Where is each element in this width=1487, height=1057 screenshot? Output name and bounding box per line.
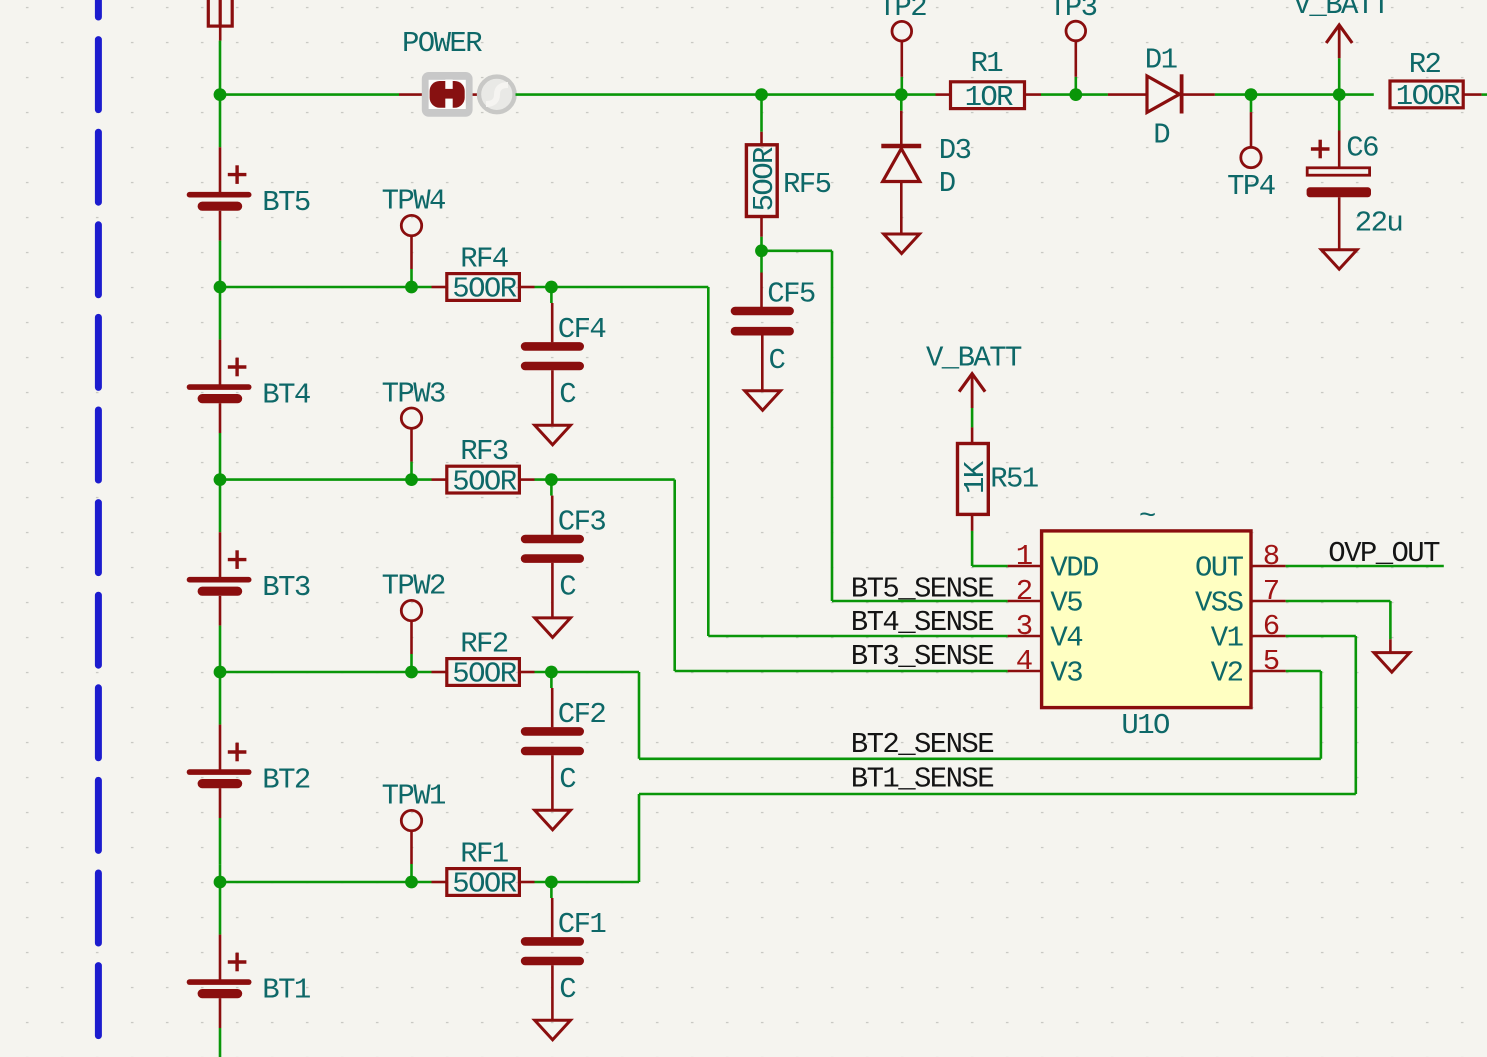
node TPW1 junction	[405, 876, 418, 889]
power symbol V_BATT top	[1326, 25, 1352, 95]
svg-text:VDD: VDD	[1050, 552, 1098, 585]
wire RF4 to CF4 node	[535, 286, 552, 289]
svg-text:C: C	[559, 763, 576, 796]
svg-text:VSS: VSS	[1195, 587, 1243, 620]
test point TPW4	[410, 236, 413, 287]
wire node A to POWER connector	[220, 93, 399, 96]
svg-text:D1: D1	[1145, 44, 1177, 77]
node D3 tap junction	[895, 88, 908, 101]
svg-text:5OOR: 5OOR	[452, 465, 516, 498]
svg-text:5OOR: 5OOR	[748, 147, 781, 211]
svg-text:OUT: OUT	[1195, 552, 1244, 585]
svg-text:U1O: U1O	[1121, 709, 1169, 742]
wire OVP_OUT net	[1286, 565, 1444, 568]
wire V_BATT to R51	[971, 408, 974, 427]
node TPW2 junction	[405, 666, 418, 679]
svg-text:BT4: BT4	[262, 378, 310, 411]
svg-text:TP4: TP4	[1227, 170, 1275, 203]
node BT junction row RF2	[214, 666, 227, 679]
wire D3 node to R1	[901, 93, 935, 96]
ground below CF2	[535, 810, 571, 830]
ground below CF4	[535, 425, 571, 445]
capacitor CF4	[550, 287, 553, 342]
svg-text:BT3: BT3	[262, 571, 310, 604]
node CF3 junction	[545, 473, 558, 486]
svg-text:TPW3: TPW3	[382, 377, 445, 410]
svg-text:CF4: CF4	[558, 313, 606, 346]
svg-text:CF3: CF3	[558, 506, 606, 539]
svg-text:D: D	[1153, 119, 1169, 152]
ground below CF5	[745, 391, 781, 411]
wire blue dashed separator line	[95, 0, 102, 1057]
wire VSS to ground	[1286, 600, 1391, 603]
node BT junction row RF1	[214, 876, 227, 889]
pin 7 VSS	[1251, 600, 1286, 603]
svg-text:2: 2	[1016, 575, 1032, 608]
svg-text:3: 3	[1016, 610, 1032, 643]
node A junction at top of battery stack	[214, 88, 227, 101]
svg-text:BT5: BT5	[262, 186, 310, 219]
wire BT5_SENSE horizontal into pin V5	[832, 600, 1008, 603]
wire TPW1 node to RF1	[412, 881, 432, 884]
svg-text:TPW2: TPW2	[382, 570, 445, 603]
svg-text:R51: R51	[990, 462, 1038, 495]
node TPW4 junction	[405, 281, 418, 294]
svg-text:~: ~	[1139, 500, 1155, 533]
capacitor C6 plus sign	[1311, 147, 1330, 150]
node TPW3 junction	[405, 473, 418, 486]
svg-text:5OOR: 5OOR	[452, 273, 516, 306]
svg-text:RF5: RF5	[783, 168, 831, 201]
wire R2 to sheet edge	[1482, 93, 1487, 96]
svg-text:BT2: BT2	[262, 763, 310, 796]
diode D1	[1108, 74, 1215, 113]
test point TPW1	[410, 831, 413, 882]
wire RF5 to CF5 node	[760, 217, 763, 237]
svg-text:C: C	[559, 378, 576, 411]
svg-text:BT5_SENSE: BT5_SENSE	[851, 573, 993, 606]
wire BT2 to RF1 row extra segment	[219, 865, 222, 882]
resistor RF3	[432, 478, 447, 481]
svg-text:R1: R1	[970, 47, 1002, 80]
wire battery stack to TPW1 node	[220, 881, 412, 884]
wire TP3 node to D1	[1076, 93, 1108, 96]
svg-text:C: C	[559, 973, 576, 1006]
wire RF1 to CF1 node	[535, 881, 552, 884]
ground at VSS	[1374, 653, 1410, 673]
capacitor CF3	[550, 480, 553, 535]
svg-text:D3: D3	[939, 134, 971, 167]
node CF1 junction	[545, 876, 558, 889]
ground below CF3	[535, 618, 571, 638]
svg-text:CF5: CF5	[767, 278, 815, 311]
wire RF3 to CF3 node	[535, 478, 552, 481]
resistor R2	[1390, 81, 1463, 108]
power symbol V_BATT at R51	[959, 374, 985, 408]
svg-text:7: 7	[1263, 575, 1279, 608]
wire battery stack to TPW3 node	[220, 478, 412, 481]
wire BT2_SENSE net	[551, 671, 639, 674]
test point TP3	[1075, 41, 1078, 95]
battery BT1 plus sign	[228, 960, 247, 963]
wire CF5 node to BT5_SENSE vertical	[762, 250, 833, 253]
resistor R1	[936, 93, 951, 96]
svg-text:1OR: 1OR	[965, 81, 1014, 114]
svg-text:6: 6	[1263, 610, 1279, 643]
svg-text:4: 4	[1016, 645, 1032, 678]
test point TP4	[1250, 95, 1253, 147]
svg-text:V5: V5	[1050, 587, 1082, 620]
svg-text:RF3: RF3	[460, 435, 508, 468]
node V_BATT junction	[1333, 88, 1346, 101]
svg-text:22u: 22u	[1355, 207, 1402, 240]
wire RF2 to CF2 node	[535, 671, 552, 674]
pin 8 OUT	[1251, 565, 1286, 568]
battery BT2	[190, 672, 249, 818]
node CF4 junction	[545, 281, 558, 294]
ground below D3	[884, 234, 920, 254]
wire BT2 bottom lead	[219, 818, 222, 865]
battery BT2 plus sign	[228, 750, 247, 753]
svg-text:C: C	[559, 571, 576, 604]
svg-text:V4: V4	[1050, 622, 1082, 655]
svg-text:BT2_SENSE: BT2_SENSE	[851, 728, 993, 761]
svg-text:RF1: RF1	[460, 838, 508, 871]
wire fuse to node A	[219, 41, 222, 95]
svg-text:C: C	[769, 344, 786, 377]
svg-text:8: 8	[1263, 540, 1279, 573]
svg-text:1K: 1K	[959, 460, 992, 494]
wire BT1 bottom lead	[219, 1028, 222, 1057]
wire RF5 node to D3 node	[762, 93, 902, 96]
wire TPW4 node to RF4	[412, 286, 432, 289]
svg-text:OVP_OUT: OVP_OUT	[1328, 537, 1440, 570]
connector J1 power-plug icon	[422, 72, 515, 117]
ground below CF1	[535, 1020, 571, 1040]
resistor R51	[971, 427, 974, 443]
svg-text:CF1: CF1	[558, 908, 606, 941]
svg-text:CF2: CF2	[558, 698, 606, 731]
svg-text:TP3: TP3	[1049, 0, 1097, 24]
wire POWER connector to RF5 node	[516, 93, 762, 96]
svg-text:BT4_SENSE: BT4_SENSE	[851, 606, 993, 639]
svg-text:RF2: RF2	[460, 628, 508, 661]
battery BT4 plus sign	[228, 365, 247, 368]
node BT junction row RF3	[214, 473, 227, 486]
wire battery stack to TPW2 node	[220, 671, 412, 674]
battery BT3 plus sign	[228, 558, 247, 561]
svg-text:1OOR: 1OOR	[1396, 80, 1460, 113]
wire TPW2 node to RF2	[412, 671, 432, 674]
op-amp U10 body	[1042, 531, 1251, 708]
wire battery stack to TPW4 node	[220, 286, 412, 289]
svg-text:RF4: RF4	[460, 243, 508, 276]
battery BT3	[190, 480, 249, 626]
ground below C6	[1321, 250, 1357, 270]
svg-text:5: 5	[1263, 645, 1279, 678]
pin 3 V4	[1008, 635, 1042, 638]
wire TP4 node to V_BATT node	[1251, 93, 1339, 96]
svg-text:TPW1: TPW1	[382, 780, 445, 813]
svg-text:V2: V2	[1211, 657, 1243, 690]
svg-text:D: D	[939, 167, 955, 200]
svg-text:V1: V1	[1211, 622, 1243, 655]
svg-text:5OOR: 5OOR	[452, 658, 516, 691]
svg-text:V3: V3	[1050, 657, 1082, 690]
wire V_BATT node to R2	[1339, 93, 1374, 96]
battery BT4	[190, 287, 249, 433]
battery BT5	[190, 95, 249, 241]
svg-text:C6: C6	[1346, 132, 1378, 165]
test point TP2	[900, 41, 903, 95]
resistor RF5	[760, 95, 763, 145]
svg-text:V_BATT: V_BATT	[926, 341, 1022, 374]
wire R1 to TP3 node	[1041, 93, 1076, 96]
svg-text:R2: R2	[1409, 48, 1441, 81]
node CF5 junction	[755, 244, 768, 257]
pin 2 V5	[1008, 600, 1042, 603]
node CF2 junction	[545, 666, 558, 679]
test point TPW2	[410, 621, 413, 672]
node TP4 junction	[1245, 88, 1258, 101]
wire BT3_SENSE net	[551, 478, 674, 481]
resistor RF2	[432, 671, 447, 674]
diode D3	[881, 95, 921, 234]
wire BT3 bottom lead	[219, 626, 222, 673]
svg-text:BT1_SENSE: BT1_SENSE	[851, 763, 993, 796]
pin 6 V1	[1251, 635, 1286, 638]
svg-text:1: 1	[1016, 540, 1032, 573]
node BT junction row RF4	[214, 281, 227, 294]
capacitor CF2	[550, 672, 553, 727]
wire BT4 bottom lead	[219, 433, 222, 480]
wire BT1_SENSE net	[551, 881, 639, 884]
svg-text:TP2: TP2	[879, 0, 927, 24]
svg-text:BT3_SENSE: BT3_SENSE	[851, 640, 993, 673]
capacitor C6	[1307, 95, 1371, 250]
fuse F1	[208, 0, 232, 41]
wire D1 to TP4 node	[1215, 93, 1251, 96]
wire TPW3 node to RF3	[412, 478, 432, 481]
capacitor CF1	[550, 882, 553, 937]
node RF5 tap junction	[755, 88, 768, 101]
svg-text:POWER: POWER	[402, 27, 482, 60]
resistor R51 value 1K	[959, 460, 992, 494]
node TP3 junction	[1069, 88, 1082, 101]
resistor RF5 value 500R	[748, 147, 781, 211]
svg-text:V_BATT: V_BATT	[1294, 0, 1390, 22]
wire BT5 bottom lead	[219, 241, 222, 288]
pin 5 V2	[1251, 670, 1286, 673]
capacitor CF5	[760, 251, 763, 308]
wire BT4_SENSE net	[551, 286, 708, 289]
svg-text:5OOR: 5OOR	[452, 868, 516, 901]
battery BT1	[190, 882, 249, 1028]
pin 1 VDD	[1008, 565, 1042, 568]
pin 4 V3	[1008, 670, 1042, 673]
resistor RF1	[432, 881, 447, 884]
svg-text:BT1: BT1	[262, 973, 310, 1006]
svg-text:TPW4: TPW4	[382, 185, 445, 218]
battery BT5 plus sign	[228, 173, 247, 176]
wire R51 to pin VDD	[971, 531, 974, 566]
test point TPW3	[410, 429, 413, 480]
resistor RF4	[432, 286, 447, 289]
